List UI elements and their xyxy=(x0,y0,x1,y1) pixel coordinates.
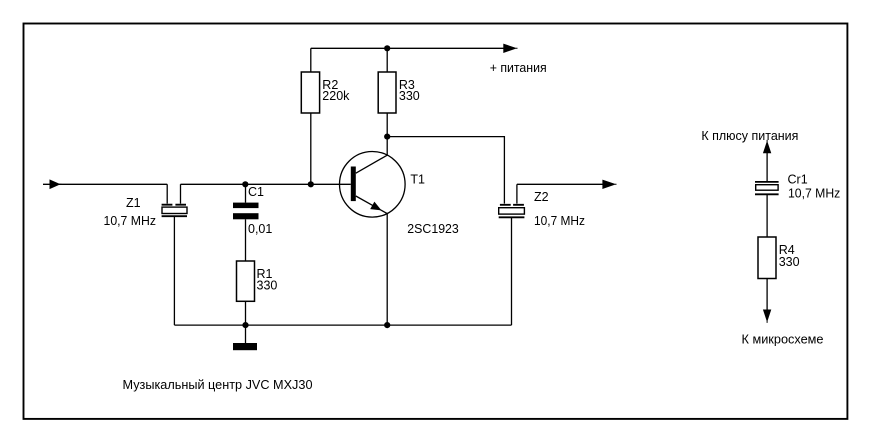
svg-text:10,7 MHz: 10,7 MHz xyxy=(534,214,585,228)
svg-text:C1: C1 xyxy=(248,185,264,199)
svg-text:Cr1: Cr1 xyxy=(788,173,808,187)
wire: C1 top lead xyxy=(245,184,247,202)
svg-text:0,01: 0,01 xyxy=(248,222,272,236)
svg-text:10,7 MHz: 10,7 MHz xyxy=(104,214,157,228)
wire: R2 bottom lead xyxy=(310,113,312,184)
input arrowhead xyxy=(50,180,62,188)
wire: R1 bottom lead xyxy=(245,301,247,325)
wire: R3 bottom lead xyxy=(386,113,388,137)
resistor R4 xyxy=(758,237,776,279)
svg-text:330: 330 xyxy=(779,255,800,269)
ground xyxy=(233,343,257,350)
svg-text:Z2: Z2 xyxy=(534,190,549,204)
ceramic filter Z2 xyxy=(499,184,525,217)
wire: collector vertical xyxy=(386,137,388,156)
node: R1 ground rail junction xyxy=(242,322,248,328)
wire: emitter vertical xyxy=(386,214,388,326)
svg-text:2SC1923: 2SC1923 xyxy=(407,222,459,236)
svg-text:330: 330 xyxy=(399,89,420,103)
supply rail arrowhead xyxy=(504,44,518,52)
svg-text:+ питания: + питания xyxy=(490,61,547,75)
resistor R2 xyxy=(301,72,319,113)
wire: R3 top lead xyxy=(386,48,388,72)
node: supply rail R3 junction xyxy=(384,45,390,51)
wire: C1 to R1 xyxy=(245,219,247,261)
svg-text:220k: 220k xyxy=(322,89,350,103)
wire: R4 to microchip arrow xyxy=(766,279,768,312)
wire: base node horizontal xyxy=(181,183,351,185)
svg-text:Музыкальный центр JVC MXJ30: Музыкальный центр JVC MXJ30 xyxy=(123,377,313,392)
output arrowhead xyxy=(603,180,617,188)
svg-text:К плюсу питания: К плюсу питания xyxy=(701,129,798,143)
ceramic resonator Cr1 xyxy=(755,182,779,194)
transistor T1 xyxy=(340,152,406,218)
node: emitter ground rail junction xyxy=(384,322,390,328)
arrow to plus supply xyxy=(764,140,771,153)
svg-text:330: 330 xyxy=(257,279,278,293)
wire: input signal line xyxy=(43,183,167,185)
svg-text:К микросхеме: К микросхеме xyxy=(742,332,824,346)
capacitor C1 xyxy=(233,203,259,220)
svg-text:T1: T1 xyxy=(410,173,425,187)
resistor R1 xyxy=(237,261,255,301)
wire: collector to Z2 xyxy=(387,137,504,204)
wire: R2 top lead xyxy=(310,48,312,72)
node: C1 junction xyxy=(242,181,248,187)
resistor R3 xyxy=(378,72,396,113)
wire: supply rail xyxy=(311,47,504,49)
wire: output signal line xyxy=(517,183,603,185)
svg-text:Z1: Z1 xyxy=(126,196,141,210)
wire: Cr1 to R4 xyxy=(766,194,768,237)
svg-text:10,7 MHz: 10,7 MHz xyxy=(788,187,840,201)
wire: Z2 bottom lead xyxy=(511,217,513,325)
node: collector junction xyxy=(384,134,390,140)
arrow to microchip xyxy=(764,310,771,323)
wire: ground lead xyxy=(245,325,247,343)
ceramic filter Z1 xyxy=(162,184,187,216)
wire: bottom ground rail xyxy=(174,324,511,326)
wire: Cr1 top lead xyxy=(766,152,768,182)
wire: Z1 bottom lead xyxy=(173,216,175,325)
node: R2 base junction xyxy=(308,181,314,187)
